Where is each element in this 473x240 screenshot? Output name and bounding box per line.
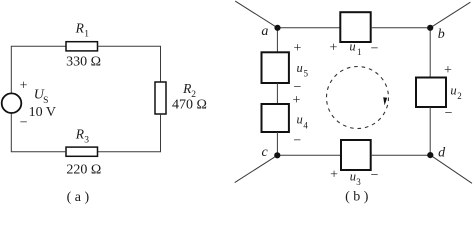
svg-text:c: c (262, 145, 269, 160)
svg-text:+: + (293, 41, 301, 56)
wire diagonal lead at node c (235, 155, 278, 182)
wire diagonal lead at node a (235, 1, 277, 28)
wire u4 to c (276, 132, 278, 155)
wire left-top side of loop (a) (11, 46, 66, 93)
wire top-right segment (98, 46, 161, 82)
svg-text:10 V: 10 V (29, 105, 56, 120)
svg-text:R: R (75, 21, 85, 36)
voltage source Us (2, 93, 22, 113)
node c (274, 152, 280, 158)
wire a to u5 (276, 28, 278, 53)
svg-text:−: − (293, 134, 301, 149)
wire u3 to d (371, 154, 431, 156)
svg-text:( b ): ( b ) (345, 190, 369, 205)
svg-text:R: R (75, 127, 85, 142)
wire a to u1 (278, 27, 341, 29)
svg-text:330 Ω: 330 Ω (66, 54, 101, 69)
resistor R3 (66, 147, 98, 156)
element u3 (341, 140, 371, 170)
svg-text:u: u (297, 113, 303, 127)
svg-text:+: + (329, 41, 337, 56)
svg-text:−: − (371, 168, 379, 183)
svg-text:b: b (438, 27, 445, 42)
svg-text:470 Ω: 470 Ω (172, 97, 207, 112)
svg-text:2: 2 (457, 91, 462, 101)
element u5 (262, 52, 289, 83)
svg-text:3: 3 (356, 177, 361, 187)
wire right-bottom segment (98, 114, 161, 152)
svg-text:+: + (20, 78, 28, 93)
svg-text:−: − (445, 106, 453, 121)
svg-text:−: − (20, 116, 28, 131)
mesh current arrowhead (383, 97, 387, 105)
svg-text:+: + (444, 63, 452, 78)
node d (427, 152, 433, 158)
svg-text:u: u (297, 61, 303, 75)
wire bottom-left segment (11, 113, 66, 152)
svg-text:u: u (349, 39, 355, 53)
svg-text:d: d (438, 145, 446, 160)
element u4 (262, 104, 289, 132)
wire diagonal lead at node d (430, 155, 472, 183)
node b (427, 25, 433, 31)
svg-text:+: + (293, 93, 301, 108)
svg-text:1: 1 (357, 47, 362, 57)
svg-text:( a ): ( a ) (67, 190, 90, 205)
wire diagonal lead at node b (430, 2, 470, 28)
wire u5 to u4 (276, 83, 278, 104)
mesh current dashed circle (327, 67, 389, 129)
svg-text:u: u (450, 83, 456, 97)
node a (274, 25, 280, 31)
element u1 (340, 12, 370, 42)
svg-text:1: 1 (84, 29, 89, 39)
resistor R2 (155, 82, 166, 114)
wire b to u2 (429, 28, 431, 78)
svg-text:a: a (261, 24, 268, 39)
svg-text:−: − (371, 41, 379, 56)
svg-text:220 Ω: 220 Ω (66, 163, 101, 178)
svg-text:u: u (350, 169, 356, 183)
svg-text:4: 4 (303, 120, 308, 130)
svg-text:5: 5 (304, 69, 309, 79)
svg-text:3: 3 (84, 136, 89, 146)
wire u1 to b (371, 27, 431, 29)
resistor R1 (66, 42, 98, 51)
element u2 (416, 78, 446, 108)
wire u2 to d (429, 107, 431, 155)
svg-text:+: + (330, 168, 338, 183)
wire c to u3 (277, 154, 341, 156)
